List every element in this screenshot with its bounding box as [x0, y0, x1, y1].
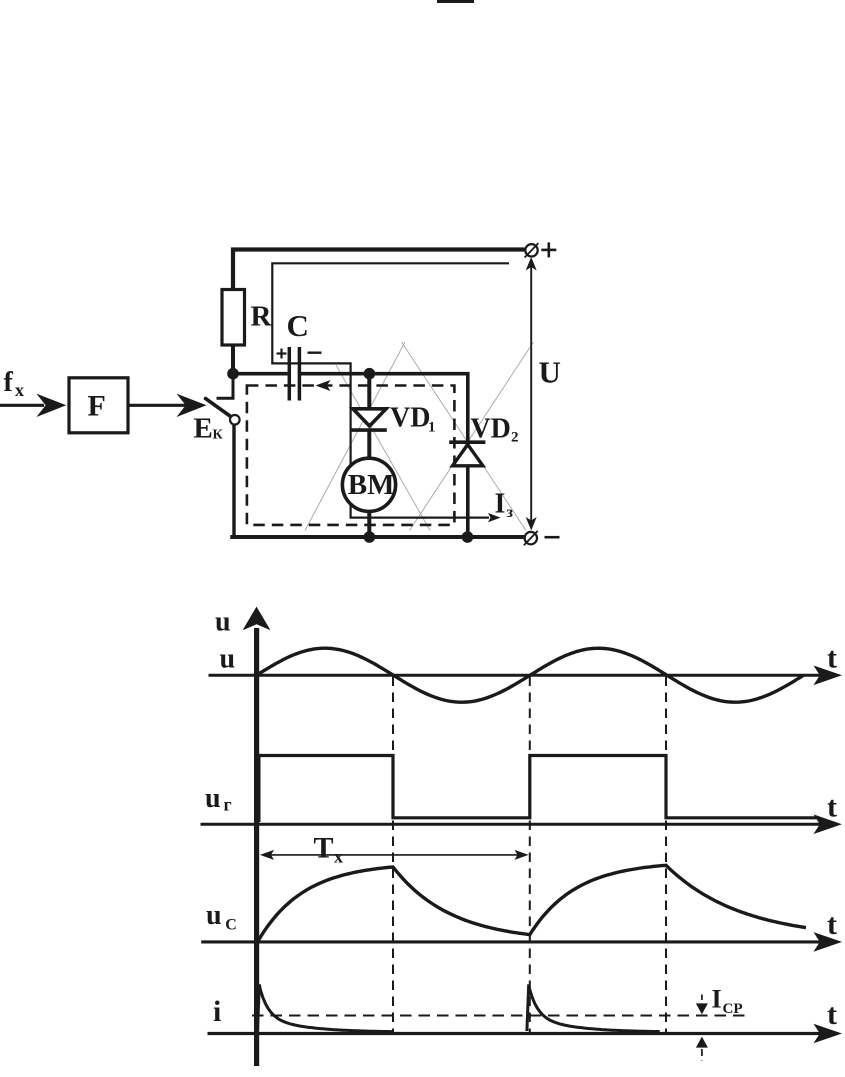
capacitor C left plate [288, 347, 292, 401]
dashed time marker line 2 (period Tx) [529, 677, 531, 1033]
svg-text:t: t [827, 642, 837, 675]
terminal + (circle with slash) [525, 243, 539, 257]
arrow from F to switch EK [128, 394, 207, 417]
discharge direction arrow (points left at capacitor) [316, 380, 331, 391]
svg-text:VD: VD [470, 414, 510, 445]
switch EK open contact circle [230, 415, 240, 425]
svg-text:u: u [205, 783, 221, 814]
polarity minus mark [308, 352, 322, 354]
svg-text:u: u [215, 607, 231, 638]
uC axis (t) [201, 932, 842, 952]
average current ICP dashed level line [252, 1015, 748, 1017]
svg-text:f: f [4, 367, 14, 398]
svg-text:t: t [827, 998, 837, 1031]
junction node D dot (VD2 bottom) [462, 531, 474, 543]
sine axis (t) [209, 666, 843, 686]
svg-text:T: T [314, 832, 334, 865]
svg-text:t: t [827, 908, 837, 941]
switch EK lever [206, 399, 231, 417]
page artifact bar (top edge) [437, 0, 474, 3]
svg-text:з: з [507, 504, 514, 521]
block F (frequency converter) [69, 378, 128, 433]
junction node B dot (VD1 top) [364, 368, 376, 380]
diode VD1 wire from node B [367, 374, 371, 409]
dashed discharge loop [247, 386, 455, 525]
svg-text:х: х [334, 847, 343, 867]
meter BM circle [342, 458, 395, 511]
sine waveform curve [257, 648, 804, 702]
main vertical axis u [243, 607, 271, 1066]
diode VD1 triangle [353, 409, 386, 426]
uG axis (t) [201, 814, 843, 834]
diode VD1 cathode bar [351, 428, 387, 432]
svg-text:E: E [194, 413, 213, 445]
construction line X over VD1 (right leg) [336, 365, 430, 531]
svg-text:К: К [213, 428, 224, 443]
input arrow into block F [0, 394, 66, 417]
svg-text:I: I [712, 985, 722, 1014]
svg-text:u: u [206, 900, 222, 931]
wire: resistor bottom to node A [231, 345, 235, 374]
junction node A dot [227, 368, 239, 380]
diode VD2 triangle [453, 445, 483, 466]
svg-text:I: I [495, 489, 506, 520]
current pulse i curve 2 [527, 984, 660, 1031]
svg-text:г: г [224, 795, 232, 815]
capacitor C right plate [298, 347, 302, 401]
wire: bottom rail to - terminal [232, 535, 524, 537]
svg-text:t: t [827, 791, 837, 824]
thin charge-path wire from + terminal side [272, 263, 509, 517]
square wave uG curve [259, 756, 818, 823]
Tx measuring double arrow [260, 850, 529, 860]
wire: top rail from resistor to + terminal [233, 250, 525, 292]
junction node C dot (VD1 bottom) [364, 531, 376, 543]
wire: switch to bottom rail [232, 425, 235, 538]
svg-text:R: R [251, 301, 273, 333]
svg-text:x: x [15, 380, 24, 400]
svg-text:ВМ: ВМ [348, 469, 395, 501]
ICP upper measuring arrow [696, 995, 708, 1015]
dashed time marker line 3 [665, 677, 667, 1033]
resistor R body [222, 290, 245, 346]
wire meter BM to bottom rail [367, 512, 371, 537]
charge current arrow I3 head [488, 513, 501, 522]
dashed time marker line 1 (end of charge) [392, 677, 394, 1033]
diode VD2 cathode bar [449, 440, 485, 444]
ICP lower measuring arrow [696, 1037, 708, 1061]
uC charge/discharge curve [258, 865, 806, 940]
label + at terminal [541, 242, 556, 257]
svg-text:F: F [88, 390, 106, 423]
svg-text:i: i [213, 995, 221, 1028]
svg-text:С: С [225, 916, 237, 933]
svg-text:1: 1 [428, 419, 436, 435]
svg-text:VD: VD [390, 403, 430, 434]
wire VD1 to meter BM [367, 430, 371, 460]
polarity plus mark [277, 349, 287, 359]
label - at terminal [545, 536, 560, 539]
svg-text:u: u [220, 644, 236, 675]
construction line X over VD1 (left leg) [305, 342, 405, 531]
i axis (t) [208, 1024, 843, 1044]
construction line X over VD2 (right leg) [410, 342, 534, 531]
construction line X over VD2 (left leg) [402, 342, 527, 531]
svg-text:СР: СР [723, 1001, 743, 1017]
svg-text:C: C [287, 308, 309, 343]
switch fixed contact stub wire [217, 374, 234, 399]
svg-text:U: U [539, 355, 561, 390]
svg-text:2: 2 [511, 429, 519, 445]
voltage U measuring arrow (vertical double arrow) [526, 257, 537, 531]
current pulse i curve 1 [258, 984, 393, 1031]
wire: node A to capacitor left plate [233, 372, 288, 376]
terminal - (circle with slash) [524, 531, 538, 545]
wire: capacitor right plate to VD2 branch corner [301, 374, 468, 537]
